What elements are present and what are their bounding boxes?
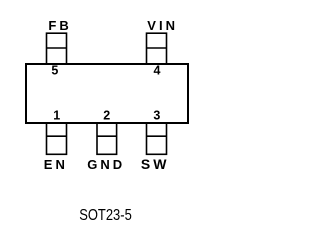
svg-text:3: 3 <box>153 109 160 123</box>
svg-text:4: 4 <box>154 64 161 78</box>
svg-text:EN: EN <box>44 157 68 172</box>
svg-text:GND: GND <box>87 157 125 172</box>
pin 1 lead (bottom-left) <box>47 123 67 154</box>
svg-text:SOT23-5: SOT23-5 <box>79 207 132 224</box>
pin 5 lead (top-left) <box>47 33 67 64</box>
svg-text:5: 5 <box>51 64 58 78</box>
svg-text:SW: SW <box>141 156 170 172</box>
pin 4 lead (top-right) <box>147 33 167 64</box>
svg-text:2: 2 <box>103 109 110 123</box>
svg-text:1: 1 <box>53 109 60 123</box>
svg-text:VIN: VIN <box>147 18 178 33</box>
svg-text:FB: FB <box>48 18 71 33</box>
package body U1 (SOT23-5 outline) <box>26 64 188 123</box>
pin 2 lead (bottom-middle) <box>97 123 117 154</box>
pin 3 lead (bottom-right) <box>147 123 167 154</box>
